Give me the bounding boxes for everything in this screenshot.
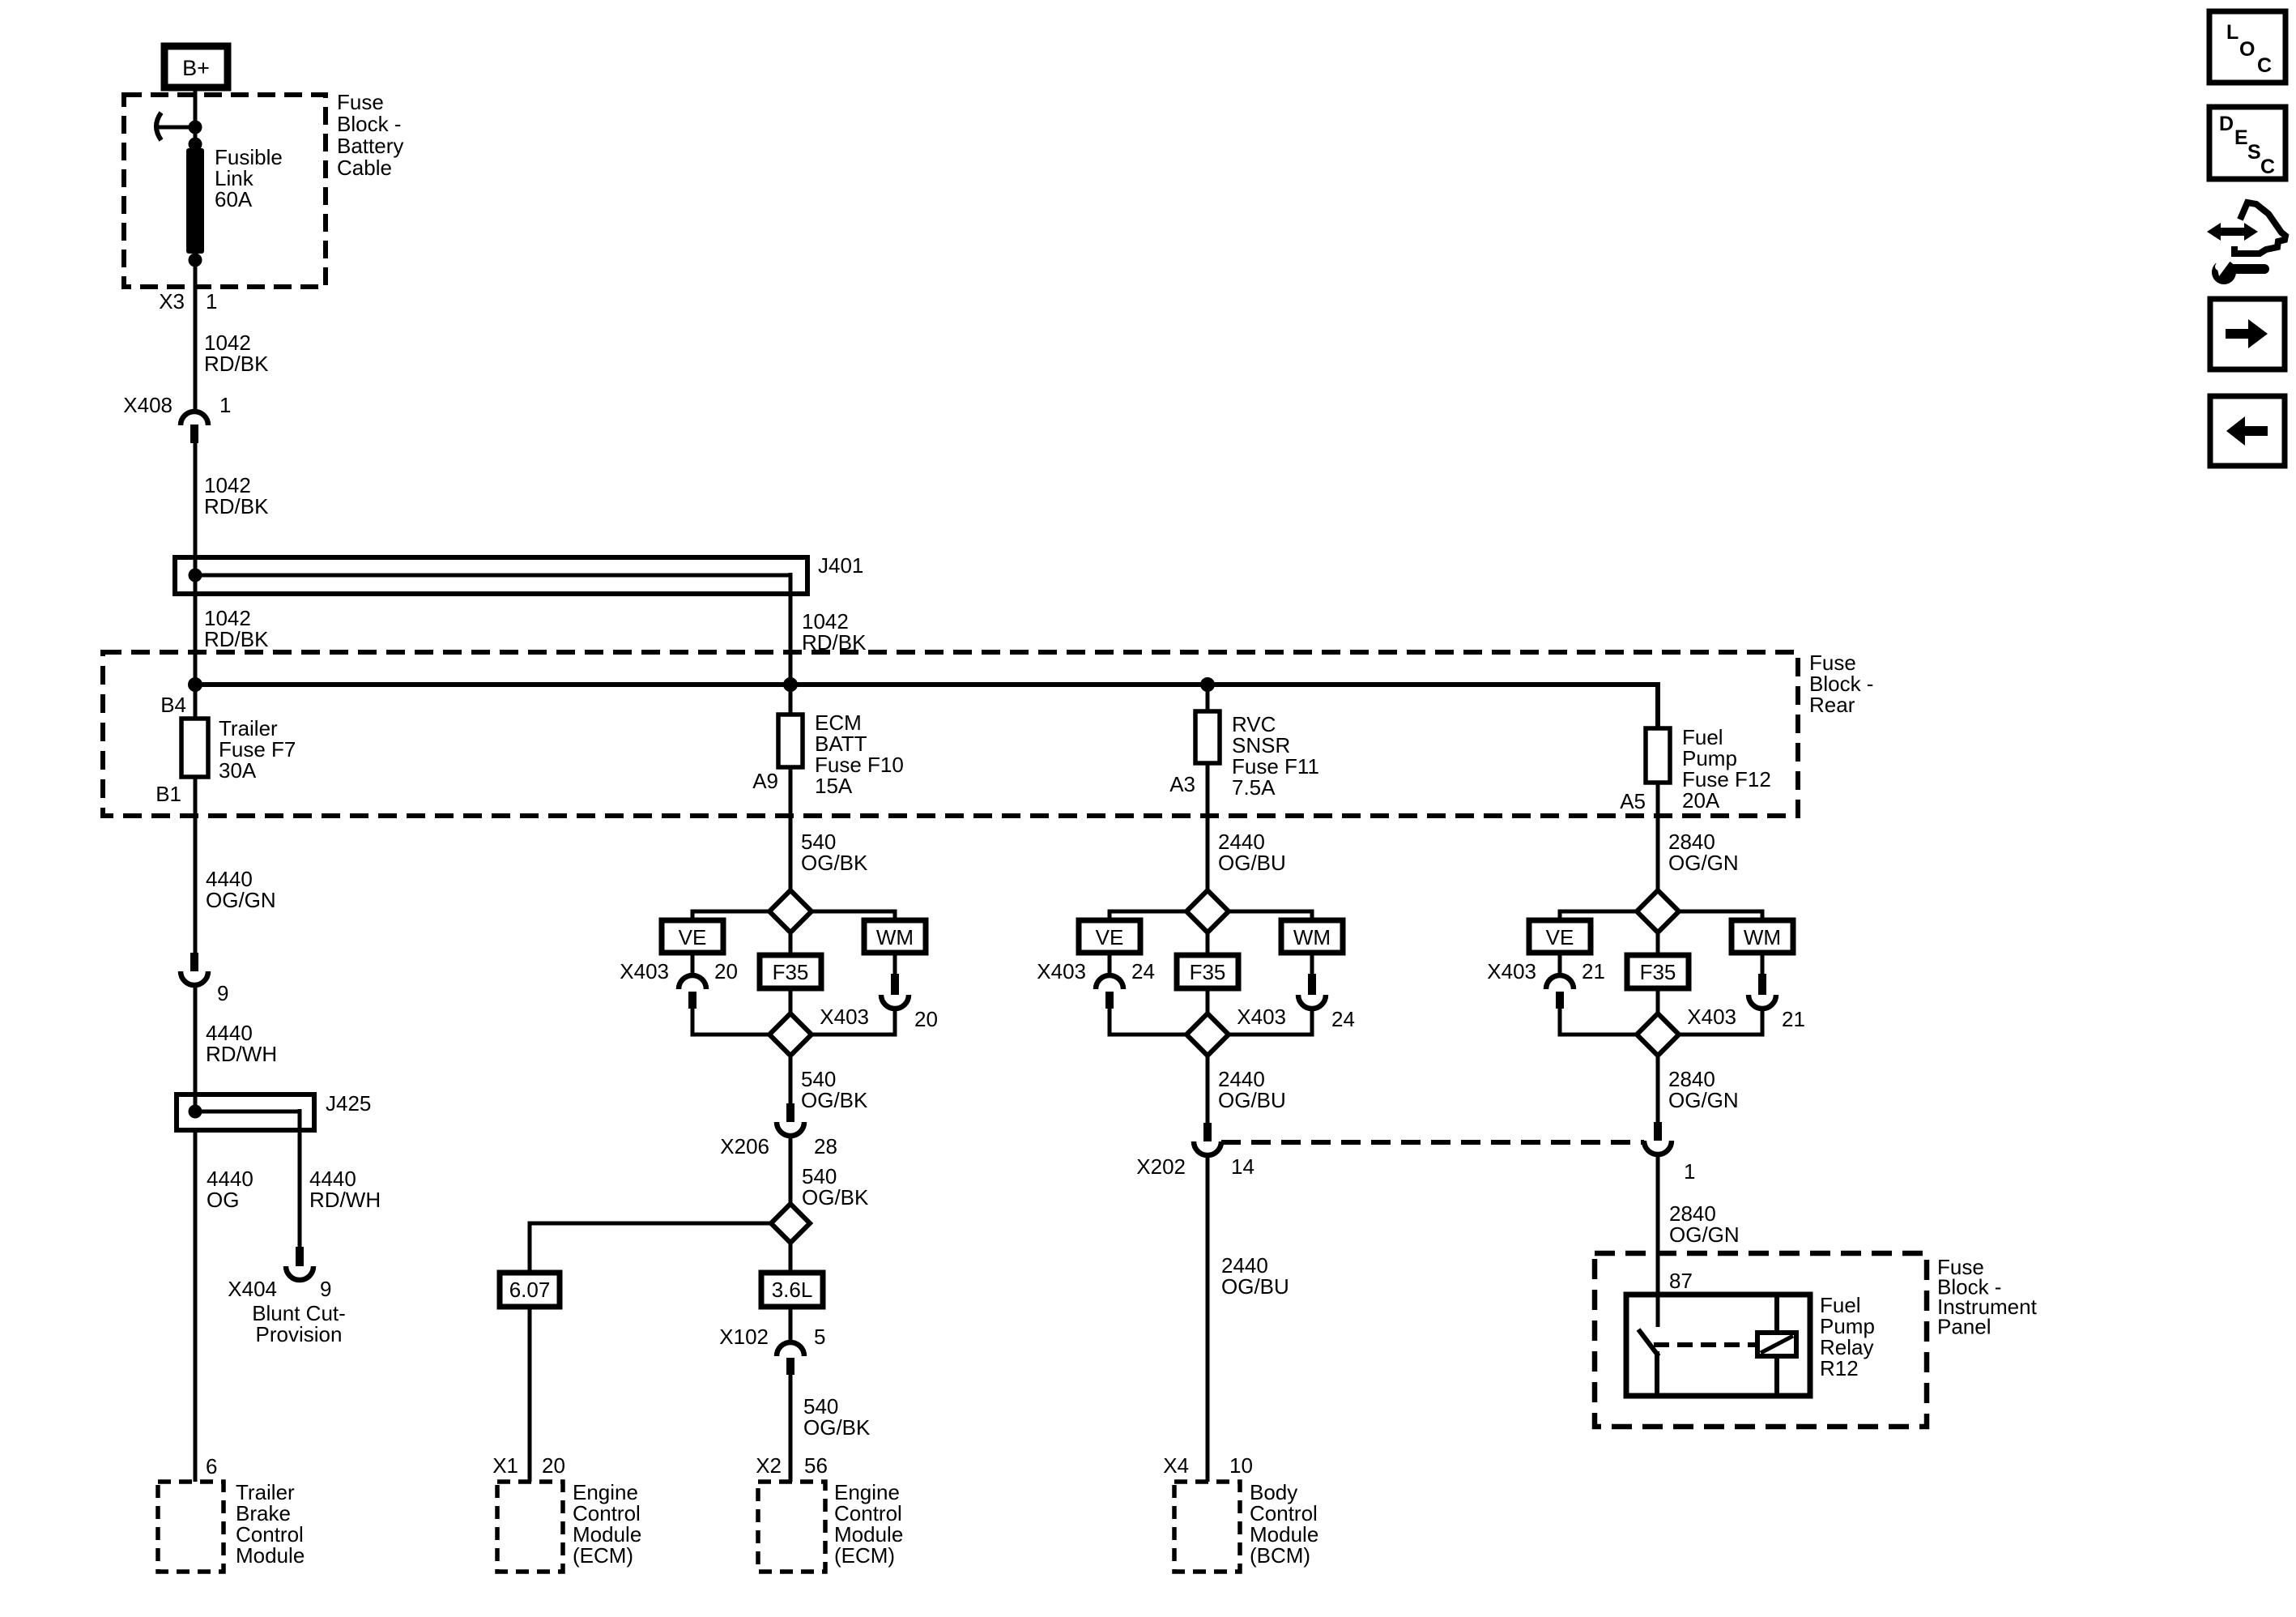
svg-text:X202: X202 <box>1136 1154 1186 1179</box>
svg-text:OG/GN: OG/GN <box>1668 1088 1739 1112</box>
wire to VE branch <box>1560 911 1637 920</box>
svg-text:VE: VE <box>679 925 707 949</box>
wire WM branch to lower diamond <box>1229 1009 1312 1035</box>
wire connector to relay <box>1656 1154 1660 1327</box>
relay switch blade <box>1638 1329 1659 1356</box>
box WM (ECM circuit) <box>864 920 926 953</box>
wire to WM branch <box>811 911 895 920</box>
svg-text:OG/BK: OG/BK <box>802 1185 869 1210</box>
svg-text:OG/BK: OG/BK <box>801 851 868 875</box>
svg-text:RD/BK: RD/BK <box>204 494 269 518</box>
connector X403 left pin 24 <box>1108 953 1112 976</box>
connector X403 right pin 24 <box>1310 953 1314 975</box>
svg-text:WM: WM <box>1744 925 1781 949</box>
svg-text:VE: VE <box>1546 925 1574 949</box>
wire 6.07 to ECM X1 <box>528 1307 532 1482</box>
svg-text:D: D <box>2219 113 2234 135</box>
svg-text:3.6L: 3.6L <box>772 1278 813 1302</box>
svg-text:30A: 30A <box>219 758 257 783</box>
svg-text:A5: A5 <box>1620 789 1646 813</box>
battery cable clip symbol <box>156 113 161 140</box>
wire bus corner drop col4 <box>1655 685 1660 728</box>
node B+ battery positive terminal <box>164 46 228 87</box>
svg-text:X403: X403 <box>1237 1005 1286 1029</box>
wire X202 to BCM <box>1206 1155 1210 1482</box>
svg-text:OG/BU: OG/BU <box>1221 1274 1289 1299</box>
svg-text:Module: Module <box>236 1543 305 1568</box>
module Engine Control Module ECM X2 dashed box <box>758 1482 825 1572</box>
connector X102 pin 5 <box>777 1342 804 1356</box>
svg-text:60A: 60A <box>215 187 253 211</box>
svg-text:1: 1 <box>219 393 231 417</box>
connector X206 pin 28 <box>786 1103 794 1122</box>
svg-text:28: 28 <box>814 1134 837 1158</box>
svg-text:OG/BU: OG/BU <box>1218 1088 1286 1112</box>
connector X403 left pin 20 <box>691 953 695 976</box>
svg-text:Fuse: Fuse <box>337 90 384 114</box>
fusible link 60A element <box>186 148 204 254</box>
svg-text:OG/GN: OG/GN <box>206 888 276 912</box>
svg-text:L: L <box>2226 21 2238 44</box>
svg-text:A3: A3 <box>1169 772 1195 796</box>
svg-text:WM: WM <box>1293 925 1331 949</box>
fuse block rear dashed enclosure <box>103 652 1798 816</box>
fuse F11 RVC SNSR 7.5A <box>1206 685 1210 711</box>
icon vehicle outline <box>2234 203 2285 254</box>
svg-text:X102: X102 <box>719 1325 769 1349</box>
connector X408 pin 1 <box>181 412 208 425</box>
box VE (ECM circuit) <box>662 920 723 953</box>
connector X403 right pin 20 <box>893 953 897 975</box>
wire to VE branch <box>692 911 769 920</box>
fuse F7 Trailer 30A <box>181 719 208 777</box>
svg-text:O: O <box>2239 38 2255 61</box>
wire cluster to connector <box>1656 1056 1660 1123</box>
svg-text:6: 6 <box>206 1454 217 1478</box>
connector fuel pump feed pin 1 <box>1654 1122 1662 1141</box>
wire WM branch to lower diamond <box>811 1009 895 1035</box>
svg-text:F35: F35 <box>1190 960 1226 984</box>
svg-text:10: 10 <box>1229 1453 1253 1478</box>
svg-text:1: 1 <box>206 289 217 314</box>
svg-text:24: 24 <box>1331 1007 1355 1031</box>
svg-text:X403: X403 <box>1487 959 1536 983</box>
wire J425 right branch to X404 <box>298 1109 302 1248</box>
svg-text:R12: R12 <box>1820 1356 1859 1380</box>
svg-text:(ECM): (ECM) <box>834 1543 895 1568</box>
node bus junction col2 <box>783 677 798 692</box>
box 6.07 engine option <box>500 1273 560 1307</box>
svg-text:F35: F35 <box>1640 960 1676 984</box>
splice diamond bottom (ECM circuit) <box>769 1013 811 1056</box>
svg-text:Rear: Rear <box>1809 693 1855 717</box>
wire to WM branch <box>1679 911 1762 920</box>
svg-text:X4: X4 <box>1163 1453 1189 1478</box>
icon service direction arrow <box>2207 223 2258 241</box>
node bus junction col3 <box>1200 677 1215 692</box>
svg-text:24: 24 <box>1131 959 1155 983</box>
svg-text:RD/BK: RD/BK <box>204 352 269 376</box>
wire diamond to F35 <box>789 932 793 955</box>
svg-text:21: 21 <box>1582 959 1605 983</box>
node bus junction col1 <box>188 677 202 692</box>
svg-text:20: 20 <box>714 959 738 983</box>
svg-text:OG/GN: OG/GN <box>1669 1222 1740 1247</box>
wire VE branch to lower diamond <box>1110 1009 1186 1035</box>
wire J401 to fuse block <box>194 575 198 719</box>
svg-text:7.5A: 7.5A <box>1232 775 1276 800</box>
svg-text:5: 5 <box>814 1325 825 1349</box>
svg-text:X1: X1 <box>492 1453 518 1478</box>
splice J425 <box>177 1094 314 1130</box>
svg-text:Provision: Provision <box>256 1322 343 1346</box>
svg-text:Battery: Battery <box>337 134 403 158</box>
wire diamond to F35 <box>1206 932 1210 955</box>
wire to VE branch <box>1110 911 1186 920</box>
svg-text:X2: X2 <box>756 1453 782 1478</box>
svg-text:B+: B+ <box>182 56 210 80</box>
svg-text:9: 9 <box>217 981 228 1005</box>
splice diamond top (BCM circuit) <box>1186 890 1229 932</box>
svg-text:Block -: Block - <box>337 112 401 136</box>
wire diamond to 3.6L <box>789 1243 793 1273</box>
wire pin 87 into relay <box>1656 1253 1660 1327</box>
svg-text:(BCM): (BCM) <box>1250 1543 1310 1568</box>
connector X404 pin 9 blunt cut <box>296 1247 304 1266</box>
wire to WM branch <box>1229 911 1312 920</box>
wire 3.6L to X102 <box>789 1307 793 1343</box>
wire X408 to J401 <box>194 443 198 575</box>
splice diamond engine branch <box>771 1204 810 1243</box>
svg-text:21: 21 <box>1782 1007 1805 1031</box>
svg-text:F35: F35 <box>773 960 809 984</box>
svg-text:RD/WH: RD/WH <box>309 1188 381 1212</box>
relay coil <box>1757 1333 1796 1356</box>
svg-text:WM: WM <box>876 925 914 949</box>
svg-text:OG/BK: OG/BK <box>803 1415 871 1440</box>
connector X202 pin 14 <box>1203 1123 1212 1141</box>
svg-text:Panel: Panel <box>1937 1315 1991 1339</box>
wire F35 to lower diamond <box>789 988 793 1013</box>
box F35 (ECM circuit) <box>760 955 821 988</box>
connector X403 left pin 21 <box>1558 953 1562 976</box>
box WM (Fuel Pump circuit) <box>1732 920 1793 953</box>
svg-text:X403: X403 <box>1687 1005 1736 1029</box>
wire J401 drop to rear fuse block bus <box>789 573 793 685</box>
wire VE branch to lower diamond <box>692 1009 769 1035</box>
module Body Control Module BCM dashed box <box>1174 1482 1240 1572</box>
svg-text:X403: X403 <box>620 959 669 983</box>
svg-text:14: 14 <box>1231 1154 1254 1179</box>
svg-text:RD/WH: RD/WH <box>206 1042 277 1066</box>
fuse F10 ECM BATT 15A <box>789 685 793 715</box>
module Trailer Brake Control Module dashed box <box>158 1482 224 1572</box>
wire F35 to lower diamond <box>1206 988 1210 1013</box>
icon back arrow box <box>2210 396 2285 466</box>
wire B+ to fusible link <box>194 87 198 151</box>
svg-text:S: S <box>2247 141 2261 164</box>
splice diamond bottom (Fuel Pump circuit) <box>1637 1013 1679 1056</box>
svg-text:9: 9 <box>320 1277 331 1301</box>
wire branch to 6.07 <box>530 1223 771 1273</box>
box WM (BCM circuit) <box>1281 920 1343 953</box>
wire F35 to lower diamond <box>1656 988 1660 1013</box>
wire J425 to trailer brake module <box>194 1130 198 1482</box>
connector pin 9 <box>190 953 198 971</box>
fuse block battery cable dashed enclosure <box>124 95 326 287</box>
icon wrench <box>2212 260 2236 284</box>
fuse F12 Fuel Pump 20A <box>1646 728 1670 783</box>
connector X403 right pin 21 <box>1761 953 1765 975</box>
fuse block instrument panel dashed enclosure <box>1595 1253 1927 1427</box>
svg-text:X206: X206 <box>720 1134 769 1158</box>
svg-text:J425: J425 <box>326 1091 371 1116</box>
wire cluster to X202 <box>1206 1056 1210 1124</box>
svg-text:OG/BU: OG/BU <box>1218 851 1286 875</box>
svg-text:6.07: 6.07 <box>509 1278 551 1302</box>
svg-text:E: E <box>2234 126 2248 149</box>
box VE (Fuel Pump circuit) <box>1529 920 1591 953</box>
svg-text:15A: 15A <box>815 774 853 798</box>
svg-text:C: C <box>2260 156 2275 178</box>
svg-text:X3: X3 <box>159 289 185 314</box>
svg-text:B4: B4 <box>160 693 186 717</box>
wire dashed link X202 to fuel pump branch <box>1221 1140 1644 1145</box>
svg-text:OG/BK: OG/BK <box>801 1088 868 1112</box>
svg-text:RD/BK: RD/BK <box>204 627 269 651</box>
svg-text:VE: VE <box>1096 925 1124 949</box>
svg-text:20: 20 <box>542 1453 565 1478</box>
svg-text:X404: X404 <box>228 1277 277 1301</box>
svg-text:56: 56 <box>804 1453 828 1478</box>
icon LOC box <box>2209 11 2285 83</box>
wire VE branch to lower diamond <box>1560 1009 1637 1035</box>
svg-text:20A: 20A <box>1682 788 1720 813</box>
svg-text:B1: B1 <box>155 782 181 806</box>
node junction at clip <box>189 121 202 134</box>
relay coil vertical feed <box>1774 1295 1779 1333</box>
relay R12 Fuel Pump Relay <box>1626 1295 1810 1396</box>
splice diamond top (ECM circuit) <box>769 890 811 932</box>
svg-text:OG: OG <box>207 1188 239 1212</box>
svg-text:C: C <box>2257 54 2272 77</box>
svg-text:(ECM): (ECM) <box>573 1543 633 1568</box>
wire WM branch to lower diamond <box>1679 1009 1762 1035</box>
splice J401 <box>175 557 807 594</box>
wire fusible link to X408 <box>194 254 198 412</box>
svg-text:Cable: Cable <box>337 156 392 180</box>
wire diamond to F35 <box>1656 932 1660 955</box>
svg-text:OG/GN: OG/GN <box>1668 851 1739 875</box>
box 3.6L engine option <box>761 1273 823 1307</box>
relay actuation dashed line <box>1654 1342 1757 1347</box>
module Engine Control Module ECM X1 dashed box <box>497 1482 563 1572</box>
svg-text:87: 87 <box>1669 1269 1693 1293</box>
splice diamond bottom (BCM circuit) <box>1186 1013 1229 1056</box>
wire bus inside rear fuse block <box>195 682 1660 687</box>
svg-text:X403: X403 <box>820 1005 869 1029</box>
box F35 (BCM circuit) <box>1177 955 1238 988</box>
svg-text:A9: A9 <box>752 769 778 793</box>
box VE (BCM circuit) <box>1079 920 1140 953</box>
svg-text:X403: X403 <box>1037 959 1086 983</box>
wire cluster to X206 <box>789 1056 793 1104</box>
splice diamond top (Fuel Pump circuit) <box>1637 890 1679 932</box>
svg-text:20: 20 <box>914 1007 938 1031</box>
svg-text:X408: X408 <box>123 393 173 417</box>
svg-text:J401: J401 <box>818 553 863 578</box>
wire connector to J425 <box>194 985 198 1111</box>
wire X102 to ECM X2 <box>789 1375 793 1482</box>
svg-text:1: 1 <box>1684 1159 1695 1184</box>
box F35 (Fuel Pump circuit) <box>1627 955 1689 988</box>
icon DESC box <box>2209 107 2285 179</box>
icon forward arrow box <box>2210 299 2285 369</box>
